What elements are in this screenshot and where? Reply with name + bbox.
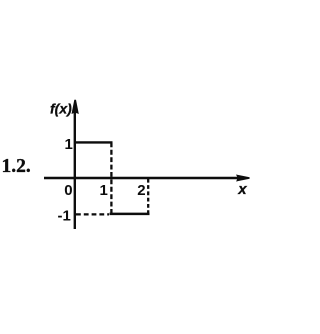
svg-text:-1: -1 [58, 207, 71, 224]
x-axis [44, 177, 238, 179]
svg-text:f(x): f(x) [50, 100, 72, 116]
svg-text:1.2.: 1.2. [2, 156, 31, 177]
svg-text:0: 0 [64, 182, 72, 199]
step segment f=1 on [0,1] [75, 141, 113, 143]
dashed vertical at x=1 [110, 142, 112, 214]
svg-text:1: 1 [65, 136, 73, 153]
y-axis arrowhead [72, 100, 79, 114]
y-axis [74, 110, 76, 229]
x-axis arrowhead [236, 175, 250, 182]
svg-text:x: x [237, 181, 247, 198]
dashed horizontal at y=-1 from axis to x=1 [76, 213, 109, 215]
svg-text:2: 2 [137, 182, 145, 199]
dashed vertical at x=2 [147, 179, 149, 215]
step segment f=-1 on [1,2] [110, 213, 150, 216]
svg-text:1: 1 [100, 182, 108, 199]
